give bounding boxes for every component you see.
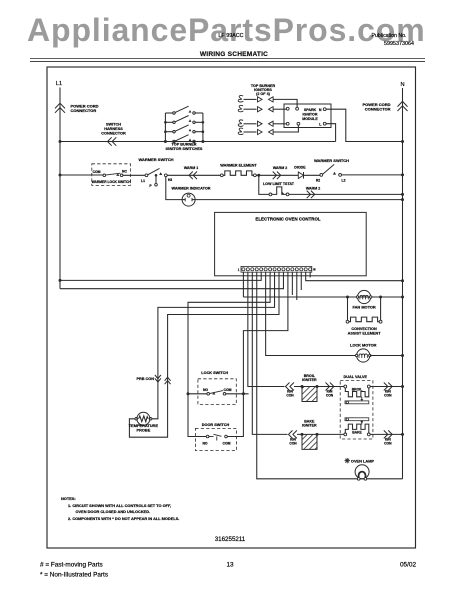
wire broil row [294,386,344,388]
EOC terminal 9 [277,268,280,271]
wire T13 stub [296,272,298,300]
junction L1-warmer [59,174,62,177]
svg-text:ASSIST ELEMENT: ASSIST ELEMENT [348,332,382,336]
svg-text:L2: L2 [342,178,346,182]
svg-text:AppliancePartsPros.com: AppliancePartsPros.com [27,12,426,48]
svg-text:CON: CON [384,442,392,446]
svg-text:* = Non-Illustrated Parts: * = Non-Illustrated Parts [40,572,108,579]
wire module L to main line [326,124,336,142]
svg-text:WARMER SWITCH: WARMER SWITCH [314,158,349,163]
svg-text:R2: R2 [316,178,320,182]
wire ignitor row1 to module [273,99,297,107]
fan motor M1 [346,296,349,299]
EOC terminal 2 [246,268,249,271]
wire bake valve to N bus [370,433,402,435]
module terminal top-left 1 [286,107,289,110]
svg-text:CON: CON [289,442,297,446]
broil valve armature [345,401,369,404]
EOC terminal strip [241,266,312,272]
wire lock switch row [188,393,207,395]
connector IGN CON broil mid [326,383,330,391]
svg-text:COM: COM [224,388,232,392]
connector IGN CON broil right [384,383,388,391]
svg-text:LOW LIMIT TSTAT: LOW LIMIT TSTAT [263,182,295,186]
wire T3 to bake row [252,272,287,434]
svg-text:(2 OF 4): (2 OF 4) [256,92,270,96]
svg-text:COM: COM [223,441,231,445]
connector IGN CON bake left [289,430,293,438]
spark gap 1 [258,97,263,102]
top burner ignitor electrode 1 [238,96,243,102]
oven lamp DS2 [345,460,350,462]
title rule upper [30,57,425,59]
junction N bus main [401,140,404,143]
top burner ignitor electrode 4 [238,128,243,134]
bake valve armature [345,418,369,421]
svg-text:1. CIRCUIT SHOWN WITH ALL CO: 1. CIRCUIT SHOWN WITH ALL CONTROLS SET T… [68,503,171,508]
wire main line L1 y141 [60,141,336,143]
ignitor switch S2 [165,121,172,123]
EOC terminal 12 [291,268,294,271]
wire module N to N bus [326,109,402,141]
wire T7 to lock/door switch left bus [188,272,270,436]
wire fan motor line [243,296,402,298]
svg-text:L1: L1 [141,179,145,183]
svg-text:DUAL VALVE: DUAL VALVE [343,375,367,379]
EOC strip end square [313,268,315,270]
wire low limit branch [259,175,269,194]
junction warmer element out [256,174,320,176]
svg-text:CON: CON [286,394,294,398]
svg-text:NO: NO [202,441,207,445]
wire ignitor row2 to module [273,108,286,110]
svg-text:WARMER LOCK SWITCH: WARMER LOCK SWITCH [92,180,132,184]
wire T2 to broil row [248,272,285,386]
EOC terminal 10 [282,268,285,271]
svg-text:NC: NC [122,170,127,174]
module terminal bottom-left 1 [286,122,289,125]
svg-text:OVEN LAMP: OVEN LAMP [351,458,375,463]
junction L1-main [59,140,62,143]
electronic oven control U2 box [215,212,367,275]
svg-text:N: N [319,108,322,112]
spark gap 2 [258,107,263,112]
svg-text:WARMER INDICATOR: WARMER INDICATOR [171,186,210,190]
svg-text:SPARK: SPARK [304,108,317,112]
wire lock switch to warmer switch [123,174,145,176]
svg-text:316255211: 316255211 [215,536,246,543]
wire ignitor row3 to module [273,123,286,125]
svg-text:SWITCH: SWITCH [106,123,121,127]
svg-text:DIODE: DIODE [294,165,306,169]
wire T1 to fan motor line [242,272,244,297]
ignitor switch S1 [165,112,172,114]
svg-text:Publication No.: Publication No. [372,33,407,39]
spark gap 4 [258,129,263,134]
wire T12 stub [291,272,293,295]
junction L1-eoc [59,279,62,282]
svg-text:CON: CON [326,394,334,398]
svg-text:IGNITER: IGNITER [302,378,317,382]
svg-text:PRB CON: PRB CON [136,377,154,381]
top burner ignitor electrode 3 [238,120,243,126]
svg-text:2. COMPONENTS WITH * DO NO: 2. COMPONENTS WITH * DO NOT APPEAR IN AL… [68,516,179,521]
wire warmer row from L1 [60,174,103,176]
convection assist element R2 [347,297,349,320]
EOC terminal 5 [260,268,263,271]
wire T6 to lock motor [266,272,356,355]
ignitor switch S4 [165,141,172,143]
svg-text:P: P [149,184,152,188]
EOC terminal 11 [286,268,289,271]
svg-text:NO: NO [203,388,208,392]
wire T15 to N bus [306,272,403,281]
broil valve coil K1 [344,385,347,388]
wire indicator to N bus [195,199,402,201]
svg-text:13: 13 [226,562,234,569]
EOC terminal 1 [242,268,245,271]
warmer lock switch S5 dashed box [92,164,131,186]
wire T8 to probe right [152,272,275,419]
bus junction dots [164,121,167,124]
svg-text:LF 99ACC: LF 99ACC [218,33,243,39]
wire warmer row to N bus [342,174,403,176]
top burner ignitor electrode 2 [238,105,243,111]
EOC terminal 7 [269,268,272,271]
wire T9 to probe left loop [129,272,279,437]
svg-text:CONNECTOR: CONNECTOR [71,108,97,113]
EOC terminal 4 [255,268,258,271]
svg-text:NOTES:: NOTES: [61,496,76,501]
svg-text:IGNITOR: IGNITOR [303,113,318,117]
temperature probe RT1 [135,418,138,421]
title rule lower [30,60,425,62]
ignitor switch S3 [165,131,172,133]
svg-text:DOOR SWITCH: DOOR SWITCH [202,423,230,427]
svg-text:WARMER ELEMENT: WARMER ELEMENT [220,164,257,168]
svg-text:OVEN DOOR CLOSED AND UNLOCKED.: OVEN DOOR CLOSED AND UNLOCKED. [76,509,151,514]
bake valve coil K2 [361,420,363,422]
connector switch harness [108,137,112,145]
wire bake row [297,433,344,435]
svg-text:05/02: 05/02 [400,562,416,569]
wire T11 to lock/door COM bus [227,272,288,436]
svg-text:CONNECTOR: CONNECTOR [101,131,126,135]
svg-text:FAN MOTOR: FAN MOTOR [352,305,375,310]
wire broil valve to N bus [370,386,402,388]
top burner ignitor switches block buses [164,113,166,142]
EOC terminal 15 [304,268,307,271]
svg-text:ELECTRONIC OVEN CONTROL: ELECTRONIC OVEN CONTROL [255,217,320,222]
wire T14 stub [300,272,302,290]
svg-text:CONVECTION: CONVECTION [351,327,377,331]
svg-text:WARM 2: WARM 2 [273,166,287,170]
wire L1 bus vertical [59,88,61,289]
wire N bus vertical [402,88,404,434]
spark gap 3 [258,121,263,126]
wire tstat to N bus [289,193,403,195]
EOC terminal 16 [309,268,312,271]
wire T16 stub [309,272,311,277]
svg-text:1: 1 [238,268,240,272]
svg-text:L1: L1 [56,81,62,87]
spark ignitor module U1 box [284,104,331,128]
wire T5 to L1 bus [60,272,261,280]
EOC terminal 3 [251,268,254,271]
wire ignitor row4 to module [273,125,298,132]
svg-text:# = Fast-moving Parts: # = Fast-moving Parts [40,562,103,569]
wire N bus to lamp line [402,434,404,478]
svg-text:H3: H3 [168,178,172,182]
connector IGN CON broil left [286,383,290,391]
connector IGN CON bake right [384,430,388,438]
wire T10 to L1 bus end [60,272,283,289]
svg-text:WARM 2: WARM 2 [306,186,320,190]
svg-text:BAKE: BAKE [352,431,362,435]
connector power cord L1 [55,103,65,108]
module terminal bottom-left 2 [297,122,300,125]
svg-text:LOCK SWITCH: LOCK SWITCH [201,371,228,375]
wire warmer switch to element [167,174,220,176]
svg-text:MODULE: MODULE [302,117,318,121]
EOC terminal 8 [273,268,276,271]
svg-text:IGNITER: IGNITER [302,424,317,428]
svg-text:COM: COM [93,170,101,174]
wire T4 to oven lamp line [257,272,403,479]
svg-text:N: N [400,82,404,88]
svg-text:CON: CON [384,394,392,398]
EOC terminal 6 [264,268,267,271]
svg-text:LOCK MOTOR: LOCK MOTOR [350,343,377,348]
connector power cord N [398,101,408,106]
svg-text:WIRING SCHEMATIC: WIRING SCHEMATIC [200,51,268,58]
EOC terminal 13 [295,268,298,271]
svg-text:BROIL: BROIL [352,387,363,391]
svg-text:L: L [319,122,322,126]
EOC terminal 14 [300,268,303,271]
svg-text:PROBE: PROBE [136,428,150,433]
schematic border frame [47,67,416,548]
svg-text:CONNECTOR: CONNECTOR [365,107,391,112]
svg-text:IGNITOR SWITCHES: IGNITOR SWITCHES [166,147,203,151]
svg-text:5995373064: 5995373064 [384,41,414,47]
svg-text:HARNESS: HARNESS [104,127,123,131]
module terminal top-left 2 [296,107,299,110]
svg-text:WARMER SWITCH: WARMER SWITCH [138,157,173,162]
svg-text:WARM 1: WARM 1 [184,166,198,170]
